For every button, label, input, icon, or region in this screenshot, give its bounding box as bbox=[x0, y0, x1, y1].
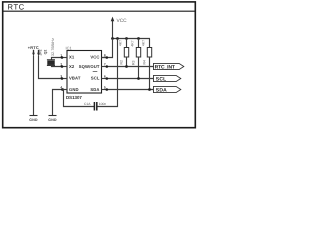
svg-text:C1A: C1A bbox=[84, 102, 91, 106]
wire rail to VCC pin bbox=[102, 39, 113, 58]
pin stub GND bbox=[62, 89, 67, 91]
node VCC pin bbox=[106, 56, 109, 59]
svg-text:R4: R4 bbox=[142, 60, 146, 65]
svg-text:VBAT: VBAT bbox=[69, 76, 81, 81]
svg-text:100n: 100n bbox=[99, 102, 107, 106]
svg-text:4K7: 4K7 bbox=[142, 40, 146, 46]
pin stub VBAT bbox=[62, 78, 67, 80]
wire GND pin down to capacitor bbox=[63, 90, 95, 107]
wire SCL to flag bbox=[107, 78, 154, 80]
frame border bbox=[3, 2, 196, 128]
node R3-scl bbox=[137, 77, 140, 80]
wire JP2 pin1 to ground bbox=[33, 56, 35, 116]
net flag SCL bbox=[154, 75, 181, 82]
IC U1 DS1307 box bbox=[67, 51, 102, 94]
svg-text:JP2: JP2 bbox=[39, 49, 43, 55]
node X1 pin bbox=[61, 56, 64, 59]
svg-text:IC1: IC1 bbox=[66, 45, 73, 50]
svg-text:SCL: SCL bbox=[156, 76, 167, 82]
svg-text:SDA: SDA bbox=[90, 87, 99, 92]
svg-text:Q2: Q2 bbox=[44, 50, 48, 55]
node gnd-pin bbox=[61, 88, 64, 91]
node rail-R1 bbox=[125, 37, 128, 40]
svg-text:VCC: VCC bbox=[117, 18, 128, 24]
svg-text:RTC_INT: RTC_INT bbox=[155, 64, 175, 70]
svg-text:R3: R3 bbox=[131, 61, 135, 66]
node X2 pin bbox=[61, 65, 64, 68]
svg-text:4K7: 4K7 bbox=[119, 40, 123, 46]
capacitor C1A bbox=[84, 102, 106, 111]
wire JP2 pin2 to VBAT bbox=[39, 56, 63, 79]
connector JP2 (+RTC) bbox=[28, 45, 43, 56]
pin stub SDA bbox=[102, 89, 107, 91]
wire rail to capacitor (VCC branch) bbox=[97, 39, 118, 107]
overline mark under OUT bbox=[93, 70, 98, 72]
title bar divider bbox=[4, 10, 195, 12]
svg-text:X1: X1 bbox=[69, 55, 75, 60]
node rail-capbranch bbox=[116, 37, 119, 40]
VCC supply symbol bbox=[112, 21, 114, 39]
wire GND pin left and down bbox=[53, 90, 63, 116]
svg-text:DS1307: DS1307 bbox=[66, 95, 82, 100]
svg-text:SQW/OUT: SQW/OUT bbox=[79, 64, 100, 69]
svg-text:32.768kHz: 32.768kHz bbox=[51, 38, 55, 56]
pin stub VCC bbox=[102, 57, 107, 59]
net flag RTC_INT bbox=[154, 63, 184, 70]
svg-text:GND: GND bbox=[48, 118, 57, 122]
node SDA pin bbox=[106, 88, 109, 91]
net flag SDA bbox=[154, 86, 181, 93]
wire SQW/OUT to flag bbox=[107, 66, 154, 68]
resistor R2 bbox=[119, 39, 129, 67]
resistor R3 bbox=[131, 39, 141, 79]
wire SDA to flag bbox=[107, 89, 154, 91]
ground symbol GND1 bbox=[29, 116, 38, 122]
pin stub X1 bbox=[62, 57, 67, 59]
ground symbol GND2 bbox=[48, 116, 57, 122]
pin stub SQW/OUT bbox=[102, 66, 107, 68]
svg-text:GND: GND bbox=[29, 118, 38, 122]
svg-text:SCL: SCL bbox=[91, 76, 100, 81]
resistor R4 bbox=[142, 39, 152, 90]
svg-text:+RTC: +RTC bbox=[28, 45, 39, 50]
node SCL pin bbox=[106, 77, 109, 80]
svg-text:GND: GND bbox=[69, 87, 79, 92]
node R4-sda bbox=[148, 88, 151, 91]
node rail-vcc bbox=[111, 37, 114, 40]
node VBAT pin bbox=[61, 77, 64, 80]
crystal Q2 bbox=[44, 38, 62, 67]
node rail-R2 bbox=[137, 37, 140, 40]
svg-text:R2: R2 bbox=[119, 60, 123, 65]
svg-text:X2: X2 bbox=[69, 64, 75, 69]
svg-text:4K7: 4K7 bbox=[131, 40, 135, 46]
wire VCC rail bbox=[113, 38, 151, 40]
pin stub X2 bbox=[62, 66, 67, 68]
svg-text:RTC: RTC bbox=[8, 2, 25, 11]
svg-text:VCC: VCC bbox=[90, 55, 99, 60]
pin stub SCL bbox=[102, 78, 107, 80]
svg-text:SDA: SDA bbox=[156, 87, 167, 93]
node R2-int bbox=[125, 65, 128, 68]
node SQW pin bbox=[106, 65, 109, 68]
